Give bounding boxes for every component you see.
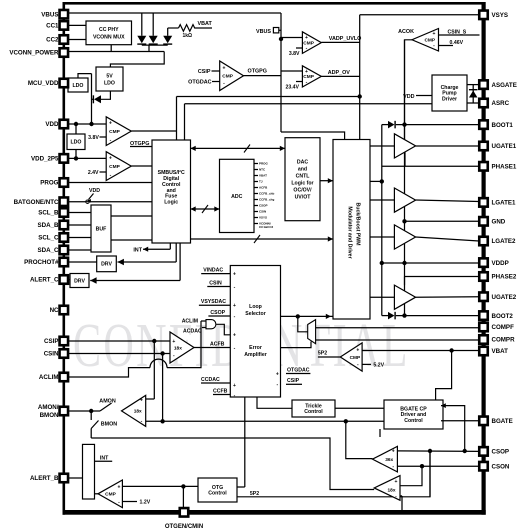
svg-text:CC2: CC2 [46, 37, 59, 44]
svg-text:ACLIM: ACLIM [182, 318, 198, 324]
svg-text:MCU_VDD: MCU_VDD [28, 80, 59, 87]
svg-text:LGATE2: LGATE2 [492, 238, 517, 245]
svg-text:VSYS: VSYS [492, 12, 509, 19]
svg-text:Logic: Logic [164, 200, 178, 206]
svg-text:CC1&CC2: CC1&CC2 [259, 225, 274, 229]
svg-text:VADP_UVLO: VADP_UVLO [329, 36, 362, 42]
svg-text:ACLIM: ACLIM [39, 374, 59, 381]
svg-text:+: + [433, 31, 436, 37]
svg-text:3.8V: 3.8V [289, 51, 300, 57]
svg-text:GND: GND [492, 219, 506, 226]
svg-text:VBUS: VBUS [256, 29, 271, 35]
svg-text:OTGDAC: OTGDAC [188, 80, 211, 86]
svg-text:CMP: CMP [222, 74, 233, 80]
svg-text:ACOK: ACOK [398, 29, 414, 35]
svg-text:Control: Control [208, 491, 227, 497]
svg-text:UGATE2: UGATE2 [492, 294, 517, 301]
svg-text:VBAT: VBAT [198, 21, 213, 27]
svg-text:+: + [392, 448, 395, 454]
svg-text:LDO: LDO [73, 83, 84, 89]
svg-text:VCONN_POWER: VCONN_POWER [9, 50, 59, 57]
svg-text:SDA_B: SDA_B [38, 222, 60, 229]
svg-text:ADC: ADC [231, 194, 242, 200]
svg-text:DRV: DRV [74, 278, 85, 284]
svg-text:CSIP: CSIP [287, 378, 300, 384]
svg-text:+: + [172, 339, 175, 345]
svg-text:Amplifier: Amplifier [244, 352, 266, 358]
svg-text:CCFB: CCFB [213, 388, 228, 394]
svg-text:CSIP: CSIP [44, 338, 58, 345]
svg-text:AMON/: AMON/ [38, 404, 59, 411]
svg-text:5V: 5V [106, 74, 113, 80]
svg-text:CMP: CMP [109, 129, 120, 135]
svg-text:LDO: LDO [71, 140, 82, 146]
svg-text:Control: Control [304, 409, 323, 415]
svg-text:ASRC: ASRC [492, 100, 510, 107]
svg-text:SCL_B: SCL_B [38, 210, 59, 217]
svg-text:INT: INT [133, 247, 142, 253]
svg-text:VDD_2P5: VDD_2P5 [31, 156, 59, 163]
svg-text:PHASE2: PHASE2 [492, 274, 517, 281]
svg-text:PROCHOT#: PROCHOT# [24, 259, 59, 266]
svg-text:COMPF: COMPF [492, 324, 515, 331]
svg-text:VBAT: VBAT [492, 348, 509, 355]
svg-text:+: + [305, 69, 308, 75]
svg-text:BMON: BMON [101, 422, 118, 428]
svg-text:UGATE1: UGATE1 [492, 143, 517, 150]
svg-text:VDD: VDD [45, 121, 59, 128]
svg-text:1.2V: 1.2V [140, 500, 151, 506]
svg-text:CCFB_chg: CCFB_chg [259, 198, 275, 202]
svg-text:LGATE1: LGATE1 [492, 200, 517, 207]
svg-text:+: + [395, 479, 398, 485]
svg-text:36x: 36x [385, 457, 393, 463]
svg-text:Buck/Boost PWM: Buck/Boost PWM [355, 203, 361, 246]
svg-text:Control: Control [404, 418, 423, 424]
svg-text:CC1: CC1 [46, 23, 59, 30]
svg-text:+: + [140, 398, 143, 404]
svg-text:BUF: BUF [96, 226, 107, 232]
svg-text:CSIN: CSIN [44, 351, 59, 358]
svg-text:+: + [233, 383, 236, 389]
svg-text:Driver: Driver [442, 96, 457, 102]
svg-text:ACFB: ACFB [259, 186, 268, 190]
svg-text:5P2: 5P2 [250, 491, 259, 497]
svg-text:+: + [305, 35, 308, 41]
svg-text:VSYS: VSYS [259, 216, 267, 220]
svg-text:BATGONE/NTC: BATGONE/NTC [14, 199, 59, 206]
svg-text:ACFB: ACFB [210, 341, 225, 347]
svg-text:3.8V: 3.8V [88, 135, 99, 141]
svg-text:Selector: Selector [245, 311, 265, 317]
svg-text:BGATE: BGATE [492, 418, 513, 425]
svg-text:ADP_OV: ADP_OV [328, 70, 351, 76]
svg-text:18x: 18x [387, 487, 395, 493]
svg-text:PHASE1: PHASE1 [492, 164, 517, 171]
svg-text:CSIN: CSIN [209, 280, 222, 286]
svg-text:UV/OT: UV/OT [295, 194, 312, 200]
svg-text:23.4V: 23.4V [285, 85, 299, 91]
svg-text:CSOP: CSOP [492, 449, 510, 456]
svg-text:CSIN: CSIN [259, 210, 266, 214]
svg-text:TJ: TJ [259, 180, 263, 184]
svg-text:VINDAC: VINDAC [203, 267, 223, 273]
svg-text:+: + [233, 271, 236, 277]
svg-text:ASGATE: ASGATE [492, 82, 517, 89]
svg-text:NC: NC [50, 307, 59, 314]
svg-text:CMP: CMP [109, 164, 120, 170]
svg-text:OTGDAC: OTGDAC [287, 367, 310, 373]
svg-text:18x: 18x [174, 345, 182, 351]
svg-text:BOOT2: BOOT2 [492, 313, 514, 320]
svg-text:VCONN MUX: VCONN MUX [93, 34, 125, 40]
svg-text:ACDAC: ACDAC [183, 329, 202, 335]
svg-text:ALERT_C: ALERT_C [30, 277, 59, 284]
svg-text:DRV: DRV [101, 262, 112, 268]
svg-text:5.2V: 5.2V [373, 363, 384, 369]
svg-text:VSYSDAC: VSYSDAC [201, 299, 226, 305]
svg-text:CMP: CMP [105, 492, 116, 498]
svg-text:5P2: 5P2 [318, 351, 327, 357]
svg-text:BMON: BMON [40, 412, 59, 419]
svg-text:Loop: Loop [249, 304, 262, 310]
svg-text:+: + [276, 371, 279, 377]
svg-text:COMPR: COMPR [492, 337, 516, 344]
svg-text:CCDAC: CCDAC [201, 377, 220, 383]
svg-text:+: + [109, 121, 112, 127]
svg-text:1kΩ: 1kΩ [183, 33, 193, 39]
svg-text:and: and [298, 166, 307, 172]
svg-text:VDDP: VDDP [492, 260, 509, 267]
svg-text:+: + [356, 347, 359, 353]
svg-text:SCL_C: SCL_C [38, 235, 59, 242]
svg-text:CCFB_chb: CCFB_chb [259, 192, 275, 196]
svg-text:VBAT: VBAT [259, 174, 267, 178]
svg-text:CNTL: CNTL [296, 173, 311, 179]
svg-text:+: + [118, 485, 121, 491]
svg-text:BOOT1: BOOT1 [492, 122, 514, 129]
svg-text:2.4V: 2.4V [88, 170, 99, 176]
svg-text:CMP: CMP [350, 355, 361, 361]
svg-text:OTGEN/CMIN: OTGEN/CMIN [165, 524, 203, 530]
svg-text:OC/OV/: OC/OV/ [293, 187, 312, 193]
svg-text:NTC: NTC [259, 168, 266, 172]
svg-text:+: + [233, 303, 236, 309]
svg-text:LDO: LDO [104, 80, 115, 86]
svg-text:VDD: VDD [89, 188, 100, 194]
svg-text:CSON: CSON [492, 463, 510, 470]
svg-text:Logic for: Logic for [291, 180, 313, 186]
svg-text:+: + [233, 333, 236, 339]
svg-text:CC PHY: CC PHY [99, 27, 119, 33]
svg-text:Modulator and Driver: Modulator and Driver [347, 206, 353, 258]
svg-text:CSIP: CSIP [198, 69, 211, 75]
svg-text:SDA_C: SDA_C [38, 247, 60, 254]
svg-text:CSOP: CSOP [210, 310, 225, 316]
svg-text:+: + [223, 66, 226, 72]
svg-text:OTGPG: OTGPG [248, 69, 267, 75]
svg-text:ALERT_B: ALERT_B [30, 475, 59, 482]
svg-text:PROG: PROG [40, 180, 58, 187]
svg-text:CSOP: CSOP [259, 204, 268, 208]
svg-text:Error: Error [249, 345, 262, 351]
svg-text:PROG: PROG [259, 162, 269, 166]
svg-text:VBUS: VBUS [41, 11, 58, 18]
svg-text:AMON: AMON [99, 399, 116, 405]
svg-text:DAC: DAC [297, 159, 308, 165]
svg-text:+: + [109, 156, 112, 162]
svg-text:18x: 18x [134, 409, 142, 415]
